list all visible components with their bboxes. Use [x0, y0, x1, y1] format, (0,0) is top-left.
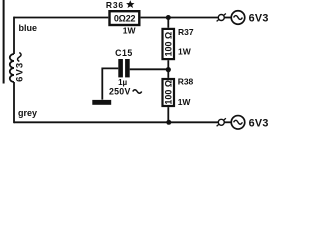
svg-text:blue: blue — [19, 23, 38, 33]
svg-text:C15: C15 — [115, 48, 133, 58]
svg-text:6V3: 6V3 — [15, 62, 26, 82]
svg-text:1W: 1W — [178, 97, 192, 107]
svg-text:0Ω22: 0Ω22 — [114, 14, 136, 24]
svg-text:1W: 1W — [178, 47, 192, 57]
svg-text:6V3: 6V3 — [249, 13, 269, 25]
svg-text:250V: 250V — [109, 87, 131, 97]
svg-text:R38: R38 — [178, 76, 194, 86]
svg-text:100 Ω: 100 Ω — [163, 32, 173, 57]
svg-text:1W: 1W — [123, 25, 137, 35]
svg-text:100 Ω: 100 Ω — [163, 80, 173, 105]
svg-text:R37: R37 — [178, 27, 194, 37]
svg-text:grey: grey — [18, 108, 37, 118]
svg-text:6V3: 6V3 — [249, 117, 269, 129]
svg-text:R36: R36 — [106, 0, 124, 10]
